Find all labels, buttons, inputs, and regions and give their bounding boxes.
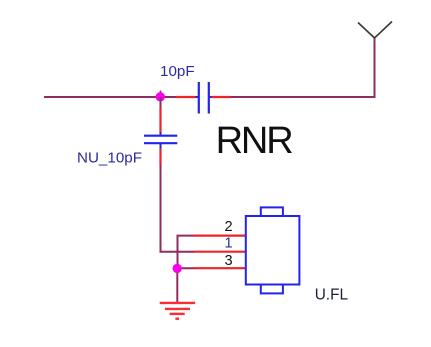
wire: main horizontal net from left edge to junction A <box>44 96 177 98</box>
capacitor C2 (NU_10pF shunt) pin 2 <box>159 149 161 166</box>
antenna ANT1 <box>358 22 392 39</box>
capacitor C2 (NU_10pF shunt) pin 1 <box>159 108 161 133</box>
capacitor C1 (series 10pF) body plates <box>196 82 213 114</box>
connector J1 pin number 2 <box>225 219 233 235</box>
connector J1 body rectangle <box>246 216 300 285</box>
connector J1 pin number 1 <box>225 235 233 251</box>
capacitor C1 (series 10pF) pin 2 <box>212 96 232 98</box>
svg-text:3: 3 <box>225 253 233 269</box>
capacitor C2 (NU_10pF shunt) body plates <box>144 132 177 150</box>
wire: junction A down to C2 <box>160 97 162 108</box>
junction B (magenta dot) <box>173 264 182 273</box>
capacitor C2 value label NU_10pF <box>77 149 142 166</box>
connector J1 body bottom tab <box>261 285 283 294</box>
svg-text:1: 1 <box>225 235 233 251</box>
capacitor C1 value label 10pF <box>160 63 195 80</box>
junction A (magenta dot) <box>156 92 165 101</box>
connector J1 body top tab <box>261 207 283 216</box>
wire: ground net corner to J1 pin 2 <box>178 236 195 269</box>
svg-text:10pF: 10pF <box>160 63 195 80</box>
connector J1 pin 1 lead <box>194 251 246 253</box>
connector J1 pin 2 lead <box>194 235 246 237</box>
ground symbol GND <box>160 303 196 319</box>
svg-text:NU_10pF: NU_10pF <box>77 149 142 166</box>
connector J1 pin number 3 <box>225 253 233 269</box>
svg-text:2: 2 <box>225 219 233 235</box>
svg-text:RNR: RNR <box>216 120 293 162</box>
wire: stub above junction A <box>160 91 162 98</box>
wire: from C1 to antenna corner <box>231 38 375 97</box>
wire: junction B to J1 pin 3 <box>178 267 195 269</box>
wire: C2 down then right to J1 pin 1 <box>161 165 195 252</box>
net name RNR <box>216 120 293 162</box>
capacitor C1 (series 10pF) pin 1 <box>176 96 196 98</box>
connector J1 designator U.FL <box>315 286 349 303</box>
wire: junction B down to ground <box>176 268 178 302</box>
connector J1 pin 3 lead <box>194 267 246 269</box>
svg-text:U.FL: U.FL <box>315 286 349 303</box>
